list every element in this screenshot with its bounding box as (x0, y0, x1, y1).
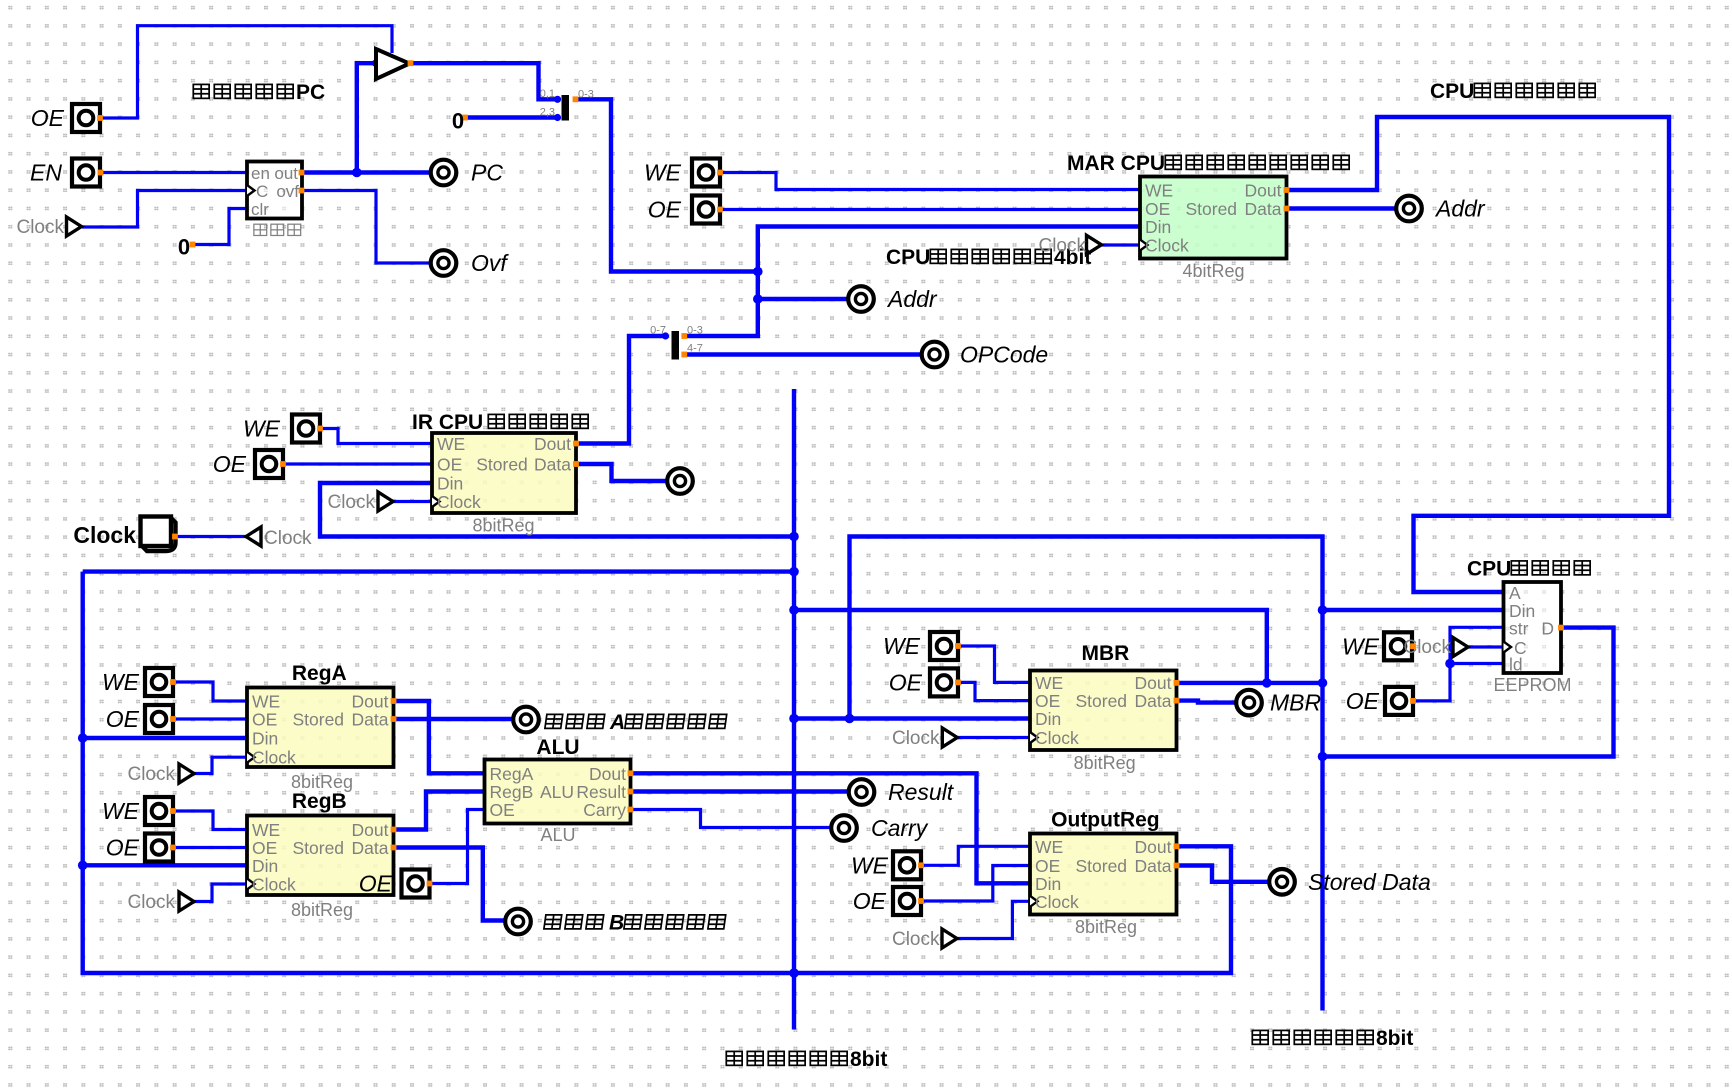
svg-text:MBR: MBR (1081, 642, 1129, 665)
svg-text:D: D (1541, 619, 1554, 639)
svg-text:0,1: 0,1 (540, 88, 555, 100)
svg-text:Stored: Stored (476, 455, 528, 475)
svg-text:8bitReg: 8bitReg (291, 900, 353, 920)
svg-text:OutputReg: OutputReg (1051, 808, 1159, 831)
svg-text:WE: WE (243, 416, 281, 442)
svg-text:Ovf: Ovf (471, 250, 509, 276)
svg-text:OE: OE (853, 888, 887, 914)
svg-text:WE: WE (252, 820, 280, 840)
svg-text:en: en (251, 164, 270, 183)
svg-text:OPCode: OPCode (960, 342, 1048, 368)
svg-text:OE: OE (648, 197, 682, 223)
svg-text:WE: WE (1342, 633, 1380, 659)
svg-text:OE: OE (31, 105, 65, 131)
svg-text:OE: OE (437, 455, 462, 475)
svg-text:WE: WE (1035, 673, 1063, 693)
svg-text:Stored: Stored (292, 710, 344, 730)
svg-text:Data: Data (1245, 199, 1282, 219)
svg-text:0: 0 (452, 109, 464, 134)
svg-text:RegA: RegA (490, 764, 534, 784)
svg-text:MBR: MBR (1270, 690, 1321, 716)
svg-text:Din: Din (1035, 709, 1061, 729)
svg-text:clr: clr (251, 200, 269, 219)
svg-text:CPU: CPU (1430, 80, 1474, 103)
svg-text:WE: WE (644, 160, 682, 186)
svg-text:Stored: Stored (1185, 199, 1237, 219)
svg-text:Addr: Addr (886, 286, 938, 312)
svg-text:Din: Din (252, 729, 278, 749)
svg-text:Stored: Stored (1075, 856, 1127, 876)
svg-text:MAR CPU: MAR CPU (1067, 152, 1165, 175)
svg-text:0-3: 0-3 (687, 325, 703, 337)
svg-text:RegB: RegB (292, 790, 347, 813)
svg-text:Data: Data (1135, 691, 1172, 711)
svg-text:ALU: ALU (536, 736, 579, 759)
svg-text:EEPROM: EEPROM (1493, 675, 1571, 695)
svg-text:Clock: Clock (892, 929, 940, 950)
svg-text:Clock: Clock (252, 875, 296, 895)
svg-text:WE: WE (1145, 181, 1173, 201)
svg-text:PC: PC (296, 81, 325, 104)
svg-text:Din: Din (252, 856, 278, 876)
svg-text:Clock: Clock (16, 217, 64, 238)
svg-text:Clock: Clock (252, 748, 296, 768)
svg-text:str: str (1509, 619, 1529, 639)
svg-text:Clock: Clock (264, 528, 312, 549)
svg-text:Data: Data (1135, 856, 1172, 876)
svg-text:Clock: Clock (73, 522, 136, 548)
svg-text:Clock: Clock (1403, 637, 1451, 658)
svg-text:ALU: ALU (540, 825, 575, 845)
svg-text:Carry: Carry (583, 800, 626, 820)
svg-text:8bitReg: 8bitReg (1075, 917, 1137, 937)
svg-text:8bitReg: 8bitReg (472, 516, 534, 536)
svg-text:Stored: Stored (1075, 691, 1127, 711)
svg-text:4-7: 4-7 (687, 343, 703, 355)
svg-text:OE: OE (106, 706, 140, 732)
svg-text:0-7: 0-7 (650, 325, 666, 337)
svg-text:4bitReg: 4bitReg (1182, 261, 1244, 281)
svg-text:Stored: Stored (292, 838, 344, 858)
svg-text:WE: WE (1035, 837, 1063, 857)
svg-text:C: C (256, 182, 268, 201)
svg-text:WE: WE (252, 692, 280, 712)
svg-text:WE: WE (851, 852, 889, 878)
svg-text:Stored Data: Stored Data (1308, 869, 1431, 895)
svg-text:ALU: ALU (540, 782, 574, 802)
svg-text:8bit: 8bit (1376, 1027, 1413, 1050)
svg-text:OE: OE (889, 670, 923, 696)
svg-text:out: out (274, 164, 298, 183)
svg-text:Data: Data (352, 838, 389, 858)
svg-text:Clock: Clock (1035, 728, 1079, 748)
svg-text:ovf: ovf (276, 182, 299, 201)
svg-text:Din: Din (437, 474, 463, 494)
svg-text:8bitReg: 8bitReg (291, 772, 353, 792)
svg-text:WE: WE (102, 669, 140, 695)
svg-text:Din: Din (1035, 874, 1061, 894)
svg-text:Result: Result (576, 782, 626, 802)
svg-text:OE: OE (106, 835, 140, 861)
svg-text:Din: Din (1145, 217, 1171, 237)
svg-text:WE: WE (437, 434, 465, 454)
svg-text:CPU: CPU (1467, 558, 1511, 581)
svg-text:Result: Result (888, 779, 955, 805)
svg-text:Clock: Clock (437, 492, 481, 512)
svg-text:Clock: Clock (127, 892, 175, 913)
svg-text:CPU: CPU (886, 246, 930, 269)
svg-text:Clock: Clock (1038, 236, 1086, 257)
svg-text:Data: Data (534, 455, 571, 475)
svg-text:B: B (609, 912, 624, 935)
svg-text:Dout: Dout (1135, 837, 1172, 857)
svg-text:OE: OE (213, 451, 247, 477)
svg-text:RegA: RegA (292, 662, 347, 685)
svg-text:OE: OE (252, 710, 277, 730)
svg-text:Carry: Carry (871, 815, 929, 841)
svg-text:Data: Data (352, 710, 389, 730)
svg-text:Clock: Clock (127, 764, 175, 785)
svg-text:RegB: RegB (490, 782, 534, 802)
svg-text:A: A (609, 711, 625, 734)
svg-text:2,3: 2,3 (540, 107, 555, 119)
svg-text:WE: WE (883, 633, 921, 659)
svg-text:A: A (1509, 583, 1521, 603)
svg-text:0-3: 0-3 (578, 89, 594, 101)
svg-text:OE: OE (490, 800, 515, 820)
svg-text:OE: OE (1346, 688, 1380, 714)
svg-text:Dout: Dout (352, 820, 389, 840)
svg-text:IR CPU: IR CPU (412, 411, 483, 434)
svg-text:8bitReg: 8bitReg (1074, 753, 1136, 773)
svg-text:Dout: Dout (1245, 181, 1282, 201)
svg-text:Dout: Dout (534, 434, 571, 454)
svg-text:Clock: Clock (892, 728, 940, 749)
svg-text:ld: ld (1509, 655, 1523, 675)
svg-text:Dout: Dout (352, 692, 389, 712)
svg-text:Clock: Clock (1145, 236, 1189, 256)
svg-text:0: 0 (178, 235, 190, 260)
svg-text:WE: WE (102, 798, 140, 824)
svg-text:8bit: 8bit (850, 1048, 887, 1071)
svg-text:Clock: Clock (1035, 892, 1079, 912)
svg-text:OE: OE (359, 871, 393, 897)
svg-text:PC: PC (471, 160, 503, 186)
svg-text:Dout: Dout (1135, 673, 1172, 693)
svg-text:Addr: Addr (1434, 196, 1486, 222)
svg-text:EN: EN (30, 160, 62, 186)
svg-text:Clock: Clock (327, 492, 375, 513)
svg-text:Dout: Dout (589, 764, 626, 784)
svg-text:OE: OE (1145, 199, 1170, 219)
